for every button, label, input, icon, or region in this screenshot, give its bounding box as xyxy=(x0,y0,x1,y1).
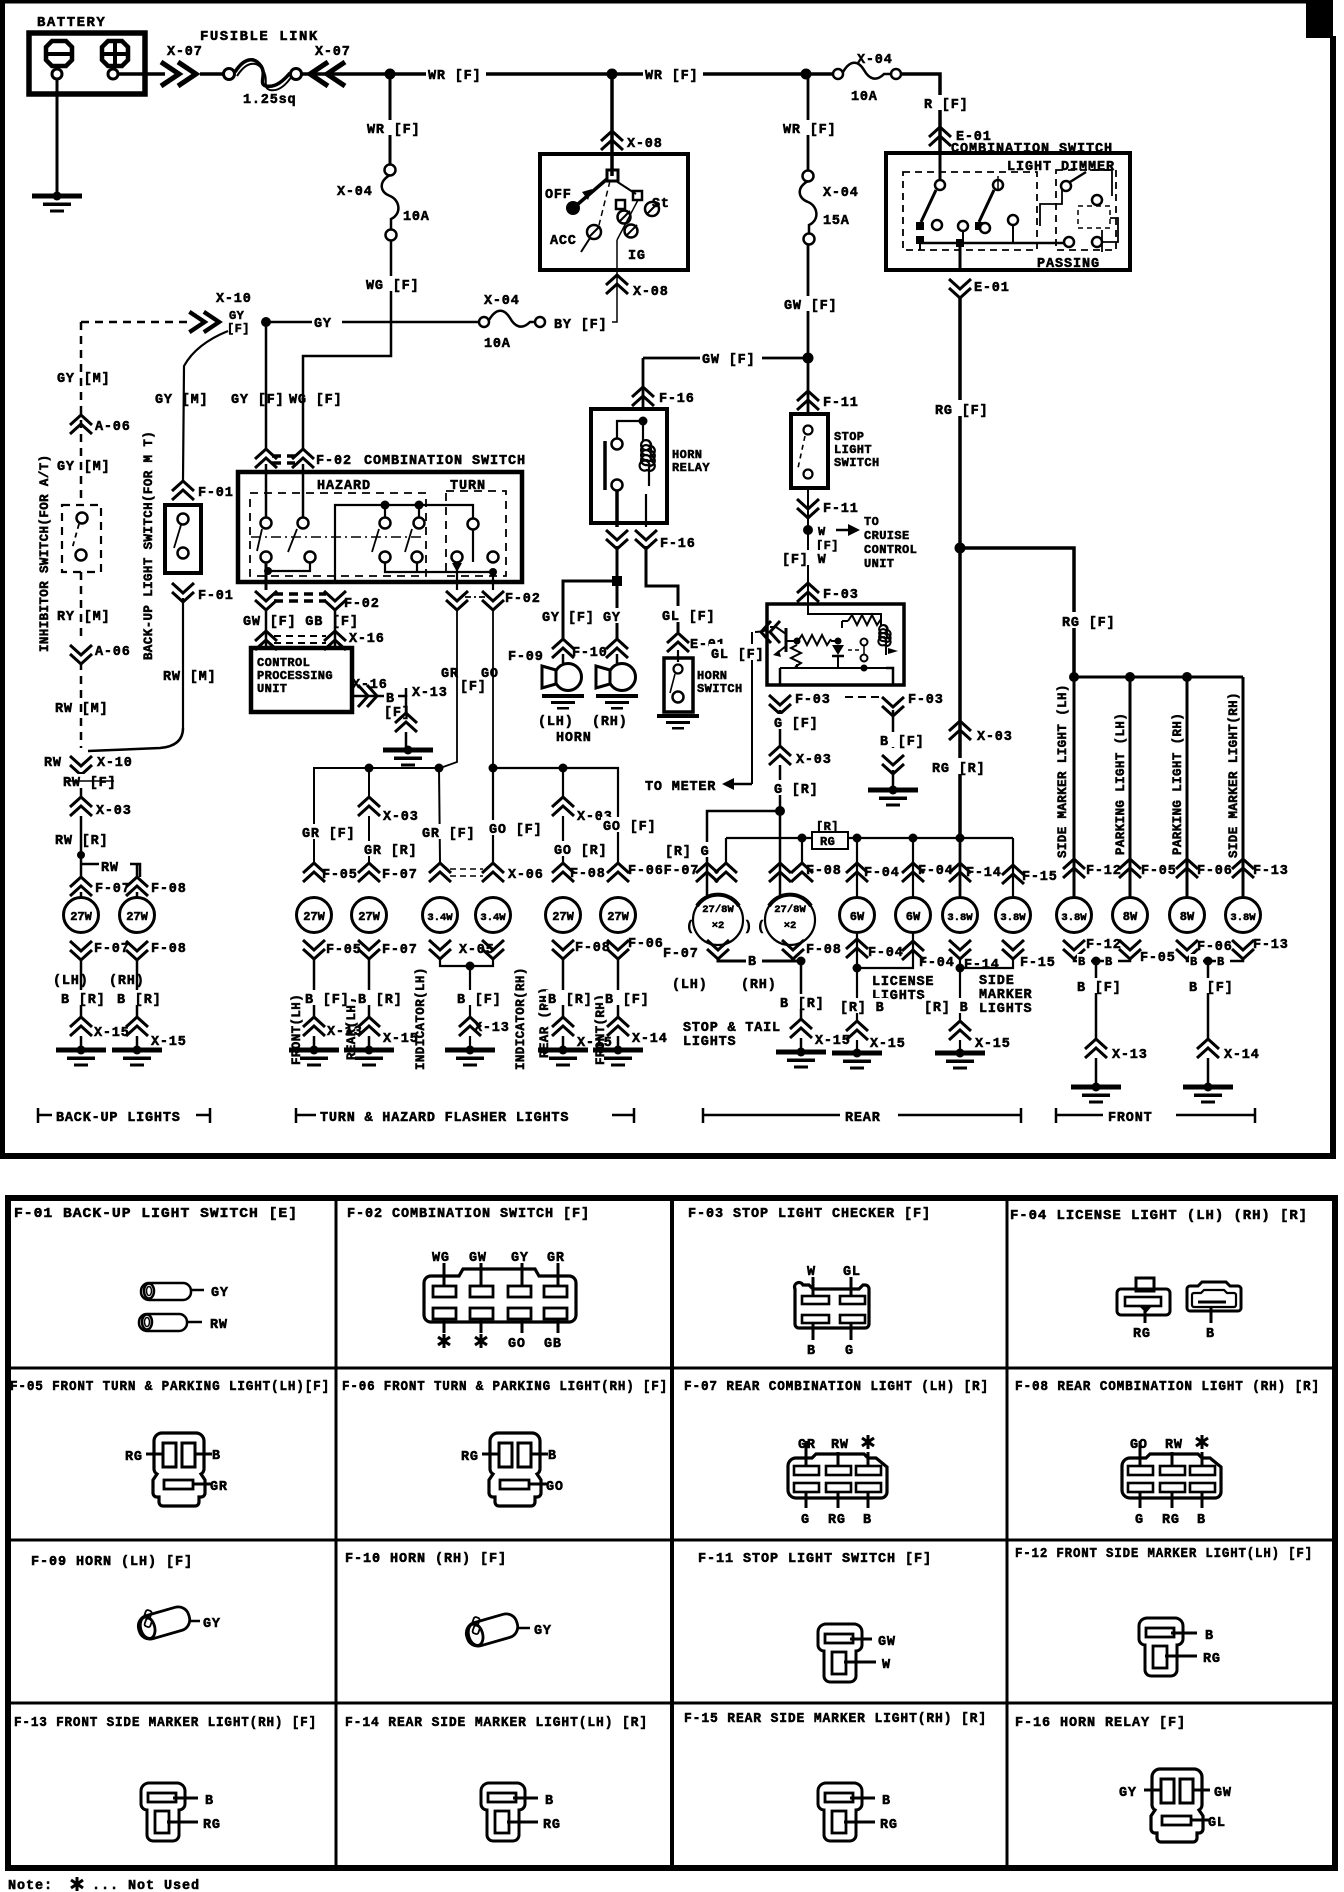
svg-text:RG: RG xyxy=(1203,1652,1221,1667)
node RG branch junction xyxy=(955,543,966,554)
svg-text:F-09: F-09 xyxy=(508,650,544,665)
svg-text:WR [F]: WR [F] xyxy=(367,123,420,138)
connector F-08 below xyxy=(552,940,574,959)
lamp parking RH 8W xyxy=(1170,898,1205,933)
svg-text:BATTERY: BATTERY xyxy=(37,15,106,31)
wire G [R] to split xyxy=(779,765,782,811)
lamp front turn LH 27W xyxy=(297,898,332,933)
wire parking RH xyxy=(1186,677,1189,897)
wire B front RH xyxy=(617,958,620,1018)
svg-text:(RH): (RH) xyxy=(109,974,145,989)
svg-text:B: B xyxy=(748,955,757,970)
rear bus [R] RG xyxy=(726,837,1013,839)
connector X-16 pair xyxy=(255,631,277,650)
fusible link FL1 xyxy=(200,72,224,76)
svg-text:RW [F]: RW [F] xyxy=(63,776,116,791)
connector F-12 below xyxy=(1063,940,1085,959)
wire GO indicator RH xyxy=(487,820,545,838)
svg-text:GY: GY xyxy=(603,611,621,626)
svg-text:GW: GW xyxy=(469,1251,487,1266)
wire GY split xyxy=(616,546,619,578)
connector X-07 left arrows xyxy=(310,62,345,86)
svg-text:LIGHTS: LIGHTS xyxy=(683,1035,736,1050)
svg-text:X-13: X-13 xyxy=(474,1021,510,1036)
wire stop tail RH feeds xyxy=(779,878,782,898)
wire B [R] backup LH xyxy=(80,958,83,1018)
connector F-02 body xyxy=(424,1269,576,1322)
svg-text:X-06: X-06 xyxy=(508,868,544,883)
svg-text:LICENSE: LICENSE xyxy=(872,975,934,990)
svg-text:GW [F]: GW [F] xyxy=(784,299,837,314)
wire GW [F] horizontal to stop light drop xyxy=(643,357,808,360)
horn switch S3 xyxy=(677,650,679,662)
connector F-02 in WG xyxy=(292,449,314,468)
svg-text:RG: RG xyxy=(820,835,835,849)
wire RW [F] xyxy=(80,772,83,798)
svg-text:X-04: X-04 xyxy=(337,185,373,200)
svg-text:X-08: X-08 xyxy=(627,137,663,152)
svg-text:FUSIBLE LINK: FUSIBLE LINK xyxy=(200,29,319,45)
fuse X-04 10A left xyxy=(385,165,396,176)
ignition switch IG wire out xyxy=(617,200,638,240)
svg-text:[F]: [F] xyxy=(568,611,595,626)
svg-text:8W: 8W xyxy=(1180,910,1195,924)
svg-text:RW: RW xyxy=(101,861,119,876)
connector X-03 rear RH turn xyxy=(552,797,574,816)
svg-text:X-10: X-10 xyxy=(216,292,252,307)
lamp license LH 6W xyxy=(840,898,875,933)
connector F-11 down xyxy=(797,499,819,518)
svg-text:B [F]: B [F] xyxy=(605,993,650,1008)
svg-text:Note:: Note: xyxy=(8,1879,53,1892)
connector F-07 below backup xyxy=(70,941,92,960)
connector X-08 below ignition xyxy=(606,275,628,294)
table column line 1 xyxy=(335,1198,338,1868)
svg-text:G: G xyxy=(1135,1513,1144,1528)
svg-text:GY [F]: GY [F] xyxy=(231,393,284,408)
svg-text:REAR: REAR xyxy=(845,1111,881,1126)
wire side marker LH xyxy=(1073,677,1076,897)
svg-text:X-04: X-04 xyxy=(484,294,520,309)
svg-text:OFF: OFF xyxy=(545,188,572,203)
svg-text:INDICATOR(RH): INDICATOR(RH) xyxy=(514,967,528,1070)
svg-text:F-05: F-05 xyxy=(1141,864,1177,879)
svg-text:WG: WG xyxy=(432,1251,450,1266)
ground battery xyxy=(32,192,82,213)
light dimmer dashed box xyxy=(903,172,1037,250)
ground rear turn LH xyxy=(344,1046,394,1067)
wire GR front LH xyxy=(300,824,358,842)
node RW split xyxy=(77,851,85,859)
svg-text:RG: RG xyxy=(1162,1513,1180,1528)
node G split xyxy=(775,806,785,816)
ignition switch ACC contact xyxy=(599,181,610,225)
connector A-06 up xyxy=(70,415,92,434)
connector F-05 below xyxy=(303,940,325,959)
svg-text:27/8W: 27/8W xyxy=(702,904,734,916)
svg-text:X-14: X-14 xyxy=(632,1032,668,1047)
svg-text:F-14: F-14 xyxy=(964,958,1000,973)
connector F-15 xyxy=(1002,865,1024,884)
connector F-01 up xyxy=(172,481,194,500)
lamp stop tail RH 27/8W xyxy=(765,895,815,945)
svg-text:X-07: X-07 xyxy=(315,45,351,60)
svg-text:F-14: F-14 xyxy=(966,866,1002,881)
svg-text:TO: TO xyxy=(864,515,879,529)
lamp indicator RH 3.4W xyxy=(476,898,511,933)
wire RG branch to front lights xyxy=(960,548,1074,677)
wire parking LH xyxy=(1129,677,1132,897)
connector F-02 in GY xyxy=(255,449,277,468)
checker resistor R3 xyxy=(791,645,801,667)
svg-text:X-15: X-15 xyxy=(870,1037,906,1052)
connector F-12 xyxy=(1063,859,1085,878)
svg-text:GO: GO xyxy=(508,1337,526,1352)
lamp license RH 6W xyxy=(896,898,931,933)
svg-text:G: G xyxy=(801,1513,810,1528)
node GY junction xyxy=(261,317,271,327)
svg-text:F-13: F-13 xyxy=(1253,864,1289,879)
connector X-03 backup xyxy=(70,797,92,816)
svg-text:F-04: F-04 xyxy=(868,946,904,961)
svg-text:GB: GB xyxy=(544,1337,562,1352)
svg-text:X-08: X-08 xyxy=(633,285,669,300)
svg-text:B [R]: B [R] xyxy=(358,993,403,1008)
ground horn LH xyxy=(542,694,584,710)
svg-text:F-07: F-07 xyxy=(382,943,418,958)
connector X-05 indicator below xyxy=(429,940,451,959)
connector F-03 up xyxy=(797,583,819,602)
wire GW down to stop light switch xyxy=(807,244,810,414)
connector X-10 arrows xyxy=(189,312,219,332)
svg-text:27W: 27W xyxy=(70,910,92,924)
connector F-09 pin xyxy=(134,1599,192,1642)
wire GL to horn switch xyxy=(646,546,678,632)
ground front RH xyxy=(1183,1083,1233,1104)
ground front turn RH xyxy=(593,1046,643,1067)
svg-text:27W: 27W xyxy=(607,910,629,924)
connector F-04 RH xyxy=(1187,1282,1241,1311)
frame top bar xyxy=(0,0,1333,4)
svg-text:3.4W: 3.4W xyxy=(480,912,506,924)
svg-text:B [F]: B [F] xyxy=(305,993,350,1008)
svg-text:RG: RG xyxy=(461,1450,479,1465)
svg-text:X-15: X-15 xyxy=(383,1032,419,1047)
svg-text:B: B xyxy=(1205,1629,1214,1644)
connector X-15 stop tail xyxy=(790,1019,812,1038)
svg-text:B: B xyxy=(1078,955,1086,969)
svg-text:RW [M]: RW [M] xyxy=(163,670,216,685)
svg-text:F-06: F-06 xyxy=(628,937,664,952)
checker diode D1 xyxy=(837,641,839,644)
svg-text:27W: 27W xyxy=(303,910,325,924)
svg-text:[F]: [F] xyxy=(227,322,250,336)
connector F-05 below xyxy=(1119,940,1141,959)
wire WR drop x=390 to fuse xyxy=(389,74,392,170)
connector F-02 out GB xyxy=(324,591,346,610)
svg-text:... Not Used: ... Not Used xyxy=(92,1879,200,1892)
svg-text:F-01: F-01 xyxy=(198,589,234,604)
svg-text:X-14: X-14 xyxy=(1224,1048,1260,1063)
ignition switch U-IGN box xyxy=(540,154,688,270)
connector X-08 xyxy=(601,131,623,150)
connector F-13 below xyxy=(1232,940,1254,959)
wire battery plus to fusible link xyxy=(118,72,165,76)
connector F-16 body xyxy=(1151,1769,1203,1842)
ground cpu xyxy=(383,746,433,767)
svg-text:X-15: X-15 xyxy=(815,1034,851,1049)
wire B rear RH xyxy=(562,958,565,1018)
svg-text:RG: RG xyxy=(828,1513,846,1528)
svg-text:GY [M]: GY [M] xyxy=(57,460,110,475)
svg-text:INDICATOR(LH): INDICATOR(LH) xyxy=(414,967,428,1070)
connector F-04 b xyxy=(902,863,924,882)
lamp side marker LH 3.8W xyxy=(1057,898,1092,933)
svg-text:RG [F]: RG [F] xyxy=(935,404,988,419)
node GW junction xyxy=(803,353,814,364)
dashed wire inhibitor chain xyxy=(80,322,83,505)
connector F-14 body xyxy=(481,1783,525,1841)
svg-text:PASSING: PASSING xyxy=(1037,257,1100,272)
svg-text:GY: GY xyxy=(229,309,245,323)
svg-text:F-08: F-08 xyxy=(806,943,842,958)
svg-text:X-15: X-15 xyxy=(975,1037,1011,1052)
ground checker B xyxy=(868,786,918,807)
wire RW [R] down xyxy=(80,816,83,877)
svg-text:CRUISE: CRUISE xyxy=(864,529,910,543)
connector F-07 body xyxy=(788,1454,887,1498)
connector F-02 out GR xyxy=(446,591,468,610)
connector F-03 out G xyxy=(769,695,791,714)
footer BACK-UP LIGHTS xyxy=(37,1108,40,1123)
hazard switch contacts xyxy=(261,518,272,529)
svg-text:F-02: F-02 xyxy=(505,592,541,607)
svg-text:STOP: STOP xyxy=(834,430,864,444)
svg-text:F-16: F-16 xyxy=(659,392,695,407)
ground indicator xyxy=(445,1046,495,1067)
checker coil xyxy=(878,625,890,655)
svg-text:10A: 10A xyxy=(851,90,878,105)
connector F-04 below a xyxy=(846,939,868,958)
connector X-03 rear LH turn xyxy=(358,797,380,816)
svg-text:TURN & HAZARD FLASHER LIGHTS: TURN & HAZARD FLASHER LIGHTS xyxy=(320,1111,569,1126)
connector table outer border xyxy=(8,1198,1335,1868)
svg-text:X-16: X-16 xyxy=(352,678,388,693)
svg-text:F-15: F-15 xyxy=(1022,870,1058,885)
svg-text:LIGHT: LIGHT xyxy=(834,443,872,457)
connector F-08 body xyxy=(1122,1454,1221,1498)
table column line 2 xyxy=(670,1198,674,1868)
svg-text:HORN: HORN xyxy=(556,731,592,746)
svg-text:3.8W: 3.8W xyxy=(1000,912,1026,924)
wire WR drop to ignition switch xyxy=(610,74,614,176)
wire B indicator xyxy=(455,990,503,1008)
svg-text:X-07: X-07 xyxy=(167,45,203,60)
svg-text:GR: GR xyxy=(441,667,459,682)
lamp indicator LH 3.4W xyxy=(423,898,458,933)
svg-text:GW [F] GB [F]: GW [F] GB [F] xyxy=(243,615,359,630)
svg-text:[R] G: [R] G xyxy=(665,845,710,860)
svg-text:B [R]: B [R] xyxy=(780,997,825,1012)
checker resistor R2 xyxy=(798,635,831,645)
svg-text:F-08 REAR COMBINATION LIGHT (R: F-08 REAR COMBINATION LIGHT (RH) [R] xyxy=(1015,1380,1320,1395)
connector X-03 on RG xyxy=(949,721,971,740)
svg-text:BACK-UP LIGHTS: BACK-UP LIGHTS xyxy=(56,1111,181,1126)
connector F-01 down xyxy=(172,583,194,602)
hazard GW output link xyxy=(268,562,310,571)
connector F-07 backup xyxy=(70,877,92,896)
svg-text:F-06 FRONT TURN & PARKING LIGH: F-06 FRONT TURN & PARKING LIGHT(RH) [F] xyxy=(342,1380,668,1395)
ground front turn LH xyxy=(289,1046,339,1067)
lamp rear side marker RH 3.8W xyxy=(996,898,1031,933)
svg-text:27/8W: 27/8W xyxy=(774,904,806,916)
svg-text:W: W xyxy=(818,525,826,539)
connector F-08 backup xyxy=(126,877,148,896)
lamp rear turn LH 27W xyxy=(352,898,387,933)
combination switch F-02 box xyxy=(238,472,522,582)
dashed wire RY [M] xyxy=(80,572,83,640)
svg-text:B: B xyxy=(1197,1513,1206,1528)
combination switch U2 box xyxy=(886,153,1130,270)
frame bottom bar xyxy=(0,1153,1336,1159)
svg-text:X-13: X-13 xyxy=(412,686,448,701)
wires GW GB to X-16 xyxy=(265,608,268,648)
svg-text:F-04: F-04 xyxy=(919,956,955,971)
wire G [F] xyxy=(779,710,782,745)
connector F-16 in xyxy=(632,387,654,406)
horn relay coil xyxy=(642,421,644,441)
svg-text:LIGHTS: LIGHTS xyxy=(979,1002,1032,1017)
wire RW [M] down xyxy=(182,598,184,728)
svg-text:B: B xyxy=(1105,955,1113,969)
connector X-07 right arrows xyxy=(161,62,196,86)
svg-text:X-04: X-04 xyxy=(823,186,859,201)
svg-text:FRONT(LH): FRONT(LH) xyxy=(290,994,304,1065)
svg-text:GO [F]: GO [F] xyxy=(489,823,542,838)
svg-text:RG: RG xyxy=(203,1818,221,1833)
ground horn switch xyxy=(657,714,699,730)
svg-text:GL [F]: GL [F] xyxy=(662,610,715,625)
svg-text:PARKING LIGHT (RH): PARKING LIGHT (RH) xyxy=(1171,713,1185,855)
svg-text:F-10 HORN (RH) [F]: F-10 HORN (RH) [F] xyxy=(345,1552,507,1567)
connector F-05 turn xyxy=(303,863,325,882)
svg-text:X-03: X-03 xyxy=(96,804,132,819)
connector F-13 body xyxy=(141,1783,185,1841)
svg-text:(LH): (LH) xyxy=(538,715,574,730)
hazard feed wires xyxy=(265,464,268,518)
connector X-03 on G xyxy=(769,746,791,765)
connector X-15 license xyxy=(846,1021,868,1040)
wire to horn relay xyxy=(642,358,645,409)
connector F-07 turn xyxy=(358,863,380,882)
svg-text:F-08: F-08 xyxy=(151,942,187,957)
svg-text:CONTROL: CONTROL xyxy=(864,543,917,557)
svg-text:RG [R]: RG [R] xyxy=(932,762,985,777)
svg-text:RG [F]: RG [F] xyxy=(1062,616,1115,631)
svg-text:B: B xyxy=(212,1449,221,1464)
svg-text:F-13 FRONT SIDE MARKER LIGHT(R: F-13 FRONT SIDE MARKER LIGHT(RH) [F] xyxy=(14,1716,317,1731)
dashed wire RW [M] xyxy=(80,662,83,748)
footer TURN HAZARD xyxy=(295,1108,298,1123)
svg-text:F-08: F-08 xyxy=(151,882,187,897)
wire battery minus to ground xyxy=(56,79,59,193)
turn dashed box xyxy=(446,491,506,576)
svg-text:F-02: F-02 xyxy=(344,597,380,612)
svg-text:B [R]: B [R] xyxy=(117,993,162,1008)
svg-text:3.8W: 3.8W xyxy=(1230,912,1256,924)
label WR [F] xyxy=(426,64,486,84)
connector F-06 front xyxy=(1176,859,1198,878)
svg-text:F-10: F-10 xyxy=(572,646,608,661)
svg-text:F-01: F-01 xyxy=(198,486,234,501)
footer REAR xyxy=(702,1108,705,1123)
svg-text:GY: GY xyxy=(534,1624,552,1639)
svg-text:F-08: F-08 xyxy=(570,867,606,882)
svg-text:): ) xyxy=(744,920,753,935)
wire B [F] checker to ground xyxy=(892,710,895,748)
ignition switch pivot xyxy=(607,170,618,181)
svg-text:GO: GO xyxy=(546,1480,564,1495)
svg-text:(RH): (RH) xyxy=(741,978,777,993)
svg-text:F-05 FRONT TURN & PARKING LIGH: F-05 FRONT TURN & PARKING LIGHT(LH)[F] xyxy=(10,1380,330,1395)
svg-text:RG: RG xyxy=(1133,1327,1151,1342)
fuse X-04 10A middle xyxy=(479,317,489,327)
GO bus xyxy=(493,768,618,862)
svg-text:F-12: F-12 xyxy=(1086,864,1122,879)
svg-text:STOP & TAIL: STOP & TAIL xyxy=(683,1021,781,1036)
svg-text:F-07: F-07 xyxy=(663,947,699,962)
svg-text:27W: 27W xyxy=(126,910,148,924)
back-up light switch S2 xyxy=(165,505,201,573)
connector F-02 out GO xyxy=(482,591,504,610)
wire B rear LH xyxy=(368,958,371,1018)
svg-text:B: B xyxy=(386,692,395,707)
svg-text:G: G xyxy=(845,1344,854,1359)
svg-text:F-12 FRONT SIDE MARKER LIGHT(L: F-12 FRONT SIDE MARKER LIGHT(LH) [F] xyxy=(1015,1547,1313,1562)
ground front LH xyxy=(1071,1083,1121,1104)
connector F-01 pin RW xyxy=(139,1314,187,1331)
wire W to cruise junction xyxy=(807,488,809,604)
svg-text:RG: RG xyxy=(543,1818,561,1833)
svg-text:F-06: F-06 xyxy=(1197,940,1233,955)
connector X-14 front xyxy=(1197,1039,1219,1058)
footer FRONT xyxy=(1055,1108,1058,1123)
ground backup LH xyxy=(56,1046,106,1067)
svg-text:×2: ×2 xyxy=(712,920,725,932)
svg-text:X-13: X-13 xyxy=(1112,1048,1148,1063)
svg-text:GL: GL xyxy=(1208,1816,1226,1831)
svg-text:×2: ×2 xyxy=(784,920,797,932)
svg-text:X-03: X-03 xyxy=(383,810,419,825)
side marker merge xyxy=(960,957,1013,968)
svg-text:F-08: F-08 xyxy=(575,941,611,956)
svg-text:GY [M]: GY [M] xyxy=(155,393,208,408)
svg-text:HORN: HORN xyxy=(672,448,702,462)
frame left bar xyxy=(0,0,5,1159)
svg-text:F-06F-07: F-06F-07 xyxy=(628,864,699,879)
connector F-16 out GL xyxy=(635,530,657,549)
svg-text:[R] B: [R] B xyxy=(924,1001,969,1016)
wire WG from fuse down and to F-02 xyxy=(303,240,391,450)
svg-text:F-05: F-05 xyxy=(1140,951,1176,966)
connector F-15 body xyxy=(818,1783,862,1841)
svg-text:GY: GY xyxy=(542,611,560,626)
wire CPU to X-16 right xyxy=(352,695,384,698)
connector E-01 horn switch xyxy=(667,633,689,652)
svg-text:(: ( xyxy=(757,920,766,935)
svg-text:B [F]: B [F] xyxy=(1077,981,1122,996)
ignition switch St contact xyxy=(616,181,636,194)
